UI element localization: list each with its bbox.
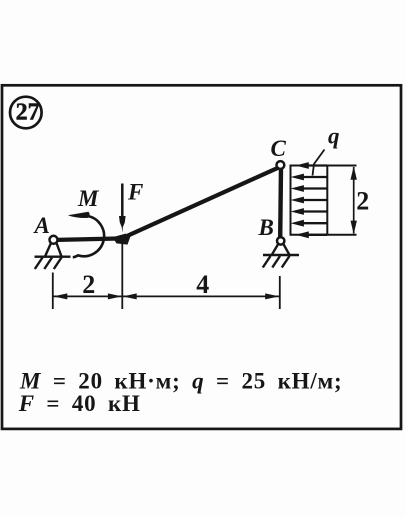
- problem number badge 27: [10, 97, 42, 129]
- ground hatching B: [263, 256, 290, 268]
- distributed load q outline: [290, 166, 357, 235]
- frame border: [2, 85, 401, 429]
- node C pin circle: [277, 161, 285, 169]
- extension line at A: [52, 273, 54, 310]
- dimension 2 (right) line: [353, 167, 355, 234]
- vertical member C to B: [278, 167, 283, 238]
- bottom dimension line: [53, 295, 280, 297]
- svg-text:2: 2: [82, 270, 95, 299]
- svg-text:F: F: [127, 180, 143, 205]
- svg-text:M = 20 кН·м; q = 25 кН/м;: M = 20 кН·м; q = 25 кН/м;: [19, 369, 342, 394]
- svg-text:A: A: [33, 213, 50, 238]
- svg-text:27: 27: [16, 100, 40, 126]
- svg-text:4: 4: [196, 270, 209, 299]
- svg-text:q: q: [328, 124, 340, 149]
- pin circle B: [277, 237, 284, 244]
- svg-text:2: 2: [356, 187, 369, 216]
- inclined member bend to C: [122, 168, 279, 239]
- distributed load q arrows: [291, 162, 327, 238]
- svg-text:M: M: [77, 186, 100, 211]
- pin support A: [35, 243, 71, 257]
- junction blob where beam meets incline: [113, 234, 131, 245]
- force F arrowhead: [119, 216, 126, 233]
- beam segment A to bend: [52, 238, 124, 240]
- svg-text:C: C: [271, 136, 287, 161]
- pin circle A: [50, 236, 58, 244]
- ground hatching A: [35, 258, 62, 270]
- pin support B: [263, 244, 299, 255]
- moment M arrowhead: [68, 212, 90, 218]
- leader line for q: [313, 150, 325, 176]
- svg-text:F = 40 кН: F = 40 кН: [18, 391, 141, 416]
- extension line under F: [121, 244, 123, 309]
- dimension 2 (right) arrowheads: [351, 166, 357, 180]
- svg-text:B: B: [258, 215, 274, 240]
- force F arrow shaft: [121, 184, 124, 219]
- moment M arc: [73, 216, 104, 257]
- extension line at B: [279, 276, 281, 309]
- bottom dimension arrowheads: [53, 293, 279, 299]
